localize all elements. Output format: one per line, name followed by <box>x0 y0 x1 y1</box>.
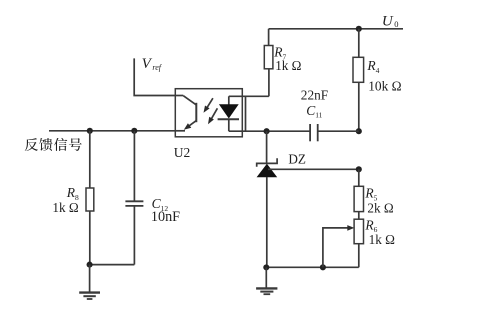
svg-text:0: 0 <box>394 19 398 29</box>
svg-text:1k Ω: 1k Ω <box>275 58 301 73</box>
svg-text:2k Ω: 2k Ω <box>367 200 393 215</box>
svg-text:1k Ω: 1k Ω <box>52 200 78 215</box>
svg-text:10nF: 10nF <box>151 209 180 225</box>
svg-text:U2: U2 <box>174 145 191 160</box>
svg-text:DZ: DZ <box>288 152 306 167</box>
svg-text:10k Ω: 10k Ω <box>368 79 401 94</box>
svg-text:1k Ω: 1k Ω <box>369 232 395 247</box>
svg-text:22nF: 22nF <box>301 88 328 103</box>
svg-text:U: U <box>382 14 394 30</box>
